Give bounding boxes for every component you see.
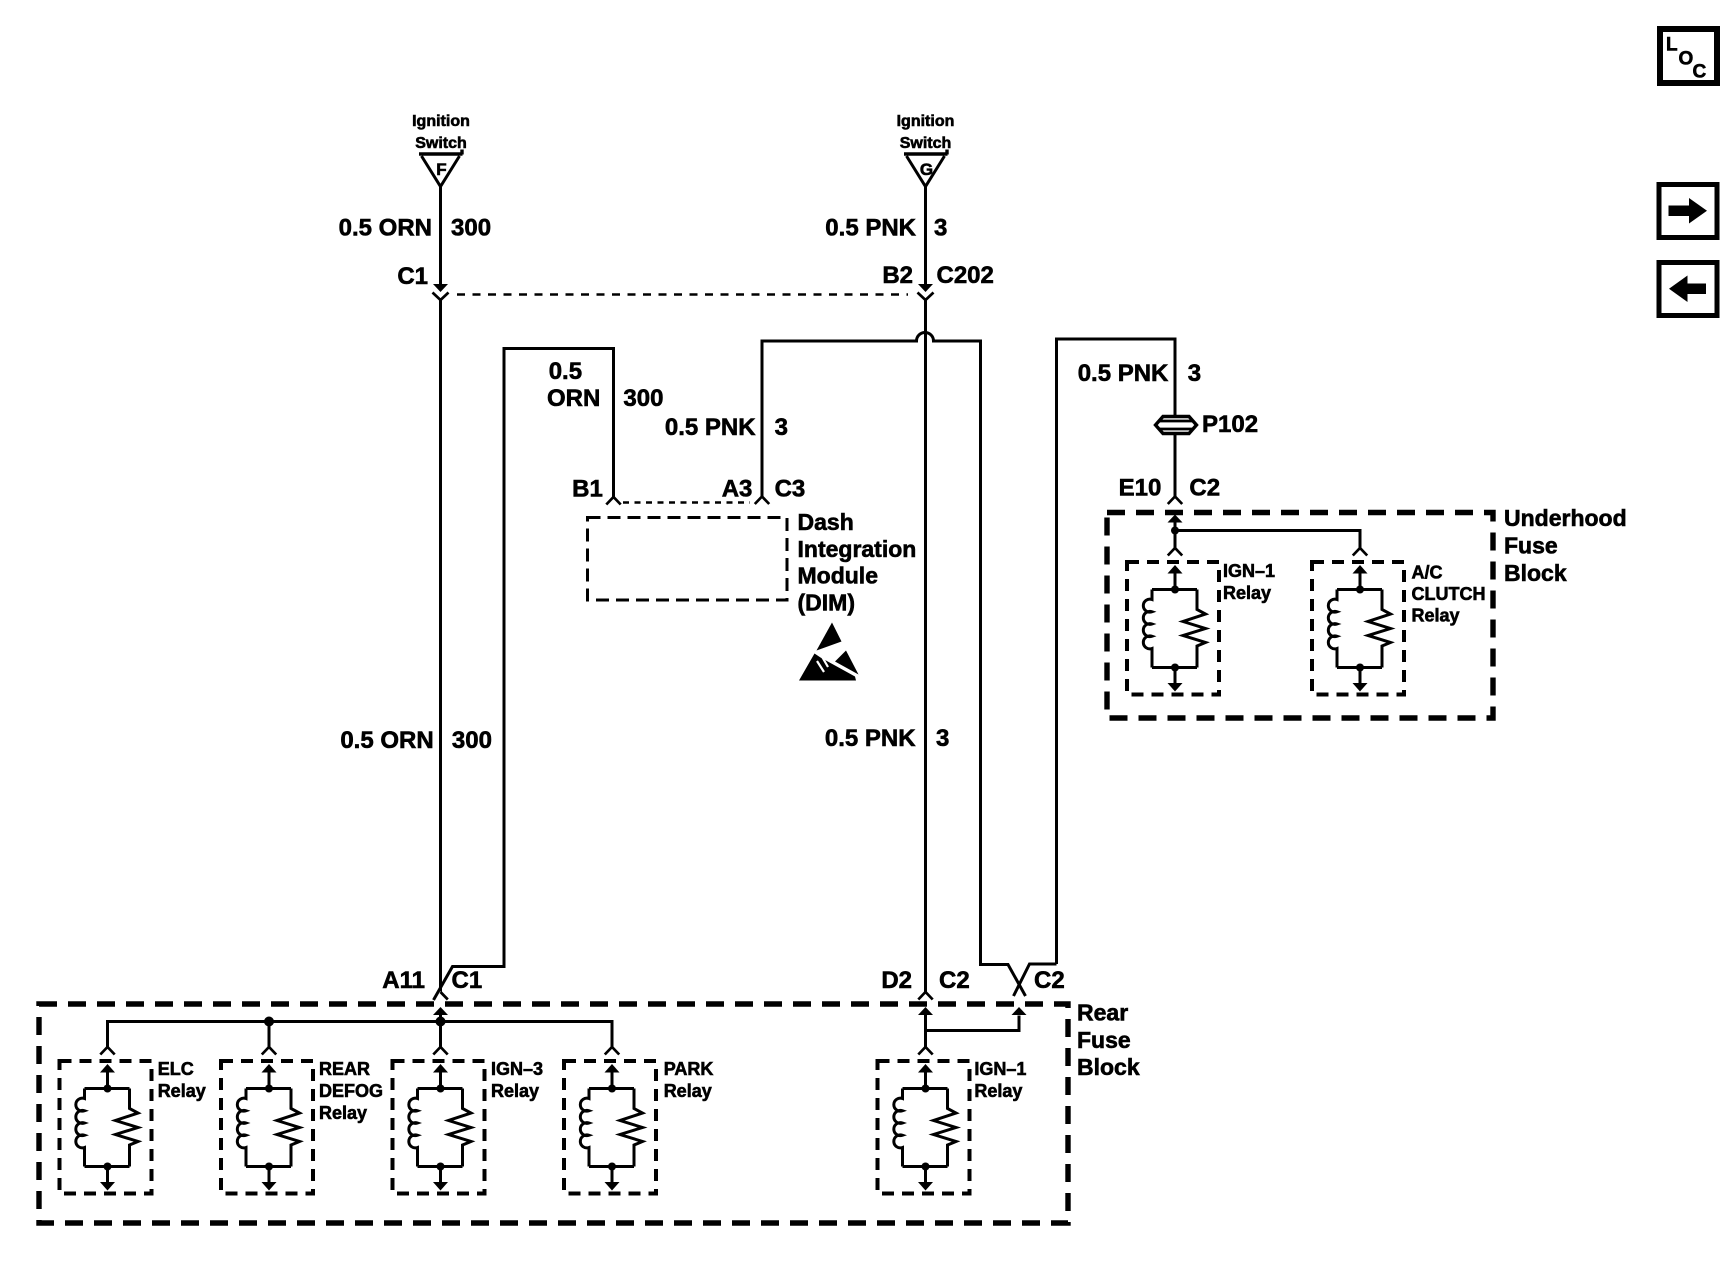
labels A11 / C1 [382, 967, 482, 994]
relay ELC: pin arrow (bottom) [100, 1167, 115, 1191]
back arrow icon [1659, 263, 1717, 316]
svg-text:F: F [436, 160, 446, 179]
Rear Fuse Block dashed box [39, 1004, 1068, 1223]
relay PARK: dashed case [564, 1061, 656, 1194]
svg-text:300: 300 [623, 385, 663, 412]
svg-text:B2: B2 [882, 262, 913, 289]
wire PNK branch to DIM C3 (hops over PNK main) [762, 333, 1026, 997]
dashed harness line C1 to C202 [457, 293, 908, 296]
junction dot (A11 feed) [436, 1017, 446, 1027]
relay REAR DEFOG: pin arrow (top) [262, 1064, 277, 1088]
svg-text:C: C [1693, 62, 1707, 83]
relay A/C CLUTCH: pin arrow (bottom) [1353, 668, 1368, 692]
relay REAR DEFOG: pin arrow (bottom) [262, 1167, 277, 1191]
connector half above IGN-1 relay (rear) [918, 1047, 932, 1055]
connector C202 [918, 284, 934, 300]
relay ELC: pin arrow (top) [100, 1064, 115, 1088]
Underhood Fuse Block dashed box [1107, 513, 1493, 719]
svg-text:C3: C3 [775, 476, 806, 503]
relay ELC: coil + resistor body [76, 1085, 138, 1171]
relay IGN-1 (underhood): pin arrow (bottom) [1168, 668, 1183, 692]
svg-text:E10: E10 [1119, 475, 1162, 502]
connector D2 (male arrow into block) [918, 1007, 933, 1047]
junction dot (REAR DEFOG tap) [264, 1017, 274, 1027]
svg-text:0.5: 0.5 [549, 358, 582, 385]
label 0.5 ORN 300 (upper) [339, 215, 491, 242]
wire inside underhood block to both relays [1175, 531, 1360, 548]
relay PARK: pin arrow (bottom) [605, 1167, 620, 1191]
connector pin B1 [606, 497, 620, 505]
ESD sensitivity symbol [799, 623, 859, 681]
svg-text:C2: C2 [939, 967, 970, 994]
svg-text:0.5 PNK: 0.5 PNK [1078, 360, 1169, 387]
connector A11/C1 (male arrow into block) [433, 1007, 448, 1022]
wire 300 from F to C1 [439, 186, 442, 284]
connector D2/C2 (female half) [918, 992, 932, 1000]
svg-text:O: O [1679, 49, 1694, 70]
svg-text:C2: C2 [1034, 967, 1065, 994]
relay IGN-1 (underhood): coil + resistor body [1143, 586, 1205, 672]
wire ORN branch to DIM B1 [434, 349, 614, 1001]
relay REAR DEFOG: dashed case [221, 1061, 313, 1194]
svg-text:ORN: ORN [547, 385, 600, 412]
Dash Integration Module (DIM) dashed box [588, 518, 788, 601]
svg-text:C1: C1 [452, 967, 483, 994]
forward arrow icon [1659, 185, 1717, 238]
junction dot (underhood feed) [1171, 527, 1179, 535]
label 0.5 PNK 3 (branch) [665, 414, 788, 441]
svg-text:3: 3 [1188, 360, 1201, 387]
label 0.5 PNK 3 (underhood) [1078, 360, 1201, 387]
ignition switch fuse symbol G [904, 150, 948, 187]
svg-text:0.5 PNK: 0.5 PNK [825, 725, 916, 752]
svg-text:0.5 ORN: 0.5 ORN [339, 215, 432, 242]
connector C2 (male arrow into block) [1012, 1007, 1027, 1015]
relay PARK: coil + resistor body [580, 1085, 642, 1171]
bus wire inside rear fuse block [108, 1022, 613, 1047]
connector pin A3/C3 [755, 497, 769, 505]
svg-text:3: 3 [936, 725, 949, 752]
wire 0.5 ORN 300 down to A11 [439, 300, 442, 992]
dashed connector line B1 to A3 [623, 501, 750, 504]
svg-text:C202: C202 [937, 262, 994, 289]
labels A3 / C3 [722, 476, 806, 503]
svg-text:0.5 PNK: 0.5 PNK [825, 215, 916, 242]
relay A/C CLUTCH: dashed case [1312, 562, 1404, 695]
svg-text:D2: D2 [881, 967, 912, 994]
label 0.5 ORN 300 (mid) [340, 727, 492, 754]
labels B2 / C202 [882, 262, 994, 289]
relay REAR DEFOG: coil + resistor body [237, 1085, 299, 1171]
svg-text:B1: B1 [572, 476, 603, 503]
connector E10 (male arrow into block) [1168, 515, 1183, 531]
connector C1 [433, 284, 449, 300]
relay IGN-1 (rear): pin arrow (top) [918, 1064, 933, 1088]
connector half above A/C CLUTCH relay [1353, 548, 1367, 556]
relay A/C CLUTCH: coil + resistor body [1328, 586, 1390, 672]
relay IGN-1 (underhood): dashed case [1127, 562, 1219, 695]
svg-text:300: 300 [451, 215, 491, 242]
connector A11/C1 (female half) [441, 992, 448, 1000]
svg-text:P102: P102 [1202, 411, 1258, 438]
svg-text:300: 300 [452, 727, 492, 754]
ignition switch fuse symbol F [419, 150, 463, 187]
svg-text:A3: A3 [722, 476, 753, 503]
splice P102 [1156, 417, 1197, 434]
label 0.5 PNK 3 (upper) [825, 215, 947, 242]
svg-text:0.5 PNK: 0.5 PNK [665, 414, 756, 441]
relay IGN-3: pin arrow (bottom) [433, 1167, 448, 1191]
connector pin E10/C2 [1168, 497, 1182, 505]
connector half above ELC relay [100, 1047, 114, 1055]
relay PARK: pin arrow (top) [605, 1064, 620, 1088]
svg-text:0.5 ORN: 0.5 ORN [340, 727, 433, 754]
LOC legend box [1660, 29, 1717, 83]
connector half above IGN-3 relay [433, 1047, 447, 1055]
relay IGN-1 (rear): coil + resistor body [894, 1085, 956, 1171]
relay IGN-3: dashed case [393, 1061, 485, 1194]
label 0.5 ORN 300 (branch) [547, 358, 663, 412]
connector half above IGN-1 relay (underhood) [1168, 548, 1182, 556]
relay IGN-3: coil + resistor body [409, 1085, 471, 1171]
svg-text:G: G [920, 160, 933, 179]
wire 3 from G to C202 [924, 186, 927, 284]
wire 0.5 PNK 3 down to D2 [924, 300, 927, 992]
connector half above REAR DEFOG relay [262, 1047, 276, 1055]
relay ELC: dashed case [60, 1061, 152, 1194]
svg-text:C2: C2 [1189, 475, 1220, 502]
label 0.5 PNK 3 (mid) [825, 725, 949, 752]
svg-text:L: L [1666, 35, 1678, 56]
connector half above PARK relay [605, 1047, 619, 1055]
labels D2 / C2 [881, 967, 969, 994]
wire PNK to underhood fuse block [1014, 339, 1176, 996]
relay IGN-1 (rear): dashed case [878, 1061, 970, 1194]
svg-text:A11: A11 [382, 967, 425, 994]
relay IGN-1 (underhood): pin arrow (top) [1168, 565, 1183, 589]
relay IGN-3: pin arrow (top) [433, 1064, 448, 1088]
svg-text:C1: C1 [397, 263, 428, 290]
svg-text:3: 3 [775, 414, 788, 441]
relay IGN-1 (rear): pin arrow (bottom) [918, 1167, 933, 1191]
relay A/C CLUTCH: pin arrow (top) [1353, 565, 1368, 589]
svg-text:3: 3 [934, 215, 947, 242]
link wire D2 to C2 inside rear block [926, 1016, 1020, 1031]
labels E10 / C2 [1119, 475, 1220, 502]
